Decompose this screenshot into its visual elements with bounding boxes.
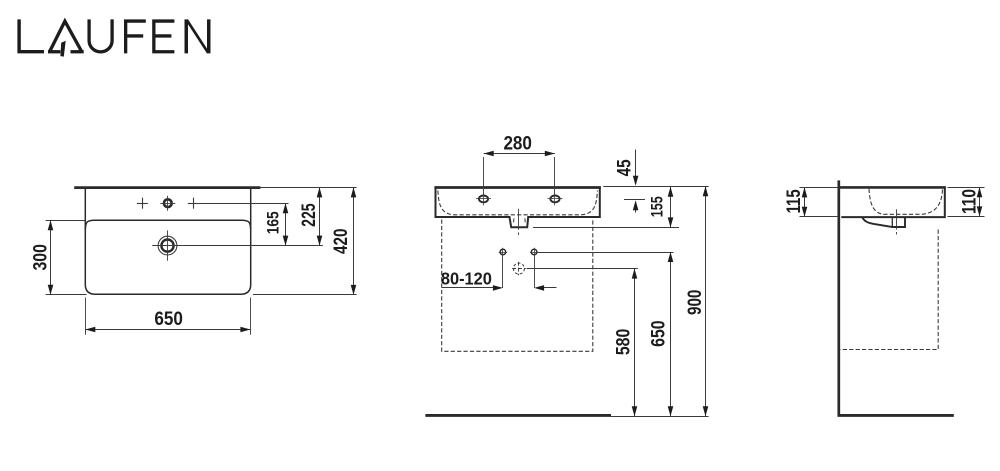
svg-text:300: 300 [30,244,52,271]
dimension 650 (top view) [85,308,250,332]
floor line (side view) [838,414,954,417]
extension line bottom edge to 420 [253,294,357,296]
dimension 165 [264,203,289,245]
side view drain centreline [896,209,898,234]
waste outlet crosshair [512,262,525,275]
extension lines for 300 [46,221,87,295]
svg-text:80-120: 80-120 [441,269,492,289]
logo letter N [185,19,211,53]
extension line top edge to 420 [260,187,356,189]
svg-text:420: 420 [330,228,352,254]
drain centre reference line [183,245,323,247]
right fixing hole [530,248,538,256]
front view inner bowl dashed line [438,191,598,215]
top view bowl rim line [85,220,250,229]
svg-text:900: 900 [684,289,706,315]
floor reference line (front) [611,416,709,418]
logo letter U [89,19,112,52]
dimension 420 [330,187,356,295]
extension lines for 650 [86,298,251,335]
right tap hole (front view) [548,192,563,205]
dimension 580 [612,269,637,417]
dimension 45 [614,150,638,213]
top view body outline [85,189,250,294]
svg-text:650: 650 [154,308,183,330]
dimension 80-120 [441,269,557,291]
tap hole centre reference line [199,203,289,205]
cabinet dashed outline (front) [442,220,593,352]
waste outlet reference to 580 [527,268,638,270]
side view top edge (thick) [838,186,946,189]
logo letter A [48,21,84,56]
floor line (front view) [425,414,611,417]
svg-text:165: 165 [264,211,283,234]
dimension 155 [649,187,674,228]
dimension 650 (front view) [647,252,673,416]
extension lines for 280 [484,157,555,194]
side view inner bowl dashed line [869,189,943,215]
svg-text:650: 650 [647,320,669,347]
left fixing hole [499,248,507,256]
front view top edge (thick) [434,186,601,189]
dimension 300 [30,220,54,294]
right spare tap hole cross [188,198,199,209]
logo letter L [17,19,44,53]
logo letter F [124,19,146,53]
top edge reference line (front) [603,186,708,188]
tap line reference (45) [624,199,645,201]
left spare tap hole cross [137,198,148,209]
side view basin outline [841,188,945,217]
dimension 900 [684,186,708,416]
extension lines for 115 [800,188,838,217]
drain (top view) [152,230,182,260]
fixing hole drop lines [503,256,535,288]
fixing hole reference to 650 [538,252,674,254]
left tap hole (front view) [476,192,491,205]
svg-text:280: 280 [503,132,532,154]
svg-text:115: 115 [783,189,805,213]
dimension 280 [484,132,555,156]
svg-text:580: 580 [612,329,634,356]
wall line [837,180,840,416]
svg-text:45: 45 [614,159,635,176]
extension lines for 110 [948,188,985,217]
tap hole (top view) [160,196,175,211]
svg-text:225: 225 [298,203,320,227]
logo letter E [152,19,174,53]
dimension 225 [298,187,322,245]
drain box bottom reference (155) [533,227,679,229]
front view drain box inner ticks [514,218,526,222]
side view drain box [862,217,905,227]
dimension 115 [783,187,807,216]
front view drain centreline [518,209,520,235]
front view basin outline [436,188,600,227]
svg-text:110: 110 [958,189,980,214]
dimension 110 [958,187,982,216]
svg-text:155: 155 [649,196,667,217]
top view back edge (thick) [74,186,260,189]
cabinet dashed outline (side) [840,230,938,350]
